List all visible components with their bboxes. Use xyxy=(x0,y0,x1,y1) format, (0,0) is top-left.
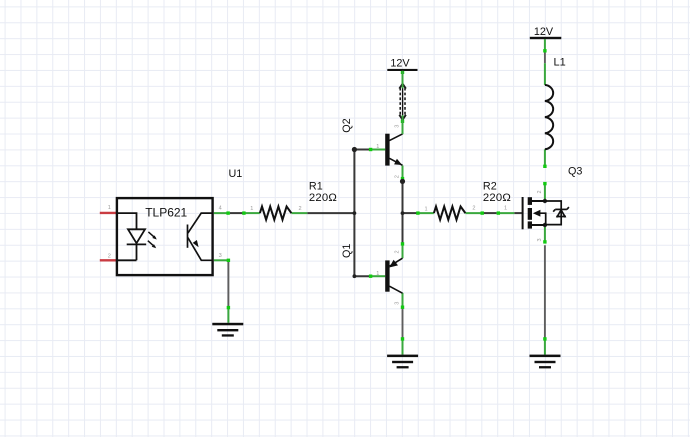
svg-text:Q3: Q3 xyxy=(568,166,582,178)
svg-text:12V: 12V xyxy=(534,26,554,38)
svg-text:2: 2 xyxy=(108,253,111,259)
svg-text:4: 4 xyxy=(219,206,222,212)
svg-text:L1: L1 xyxy=(554,57,566,69)
svg-text:220Ω: 220Ω xyxy=(309,192,337,204)
svg-text:2: 2 xyxy=(537,190,543,193)
svg-text:3: 3 xyxy=(395,302,401,305)
svg-text:1: 1 xyxy=(376,271,379,277)
svg-text:1: 1 xyxy=(425,206,428,212)
svg-text:1: 1 xyxy=(108,205,111,211)
svg-text:3: 3 xyxy=(219,253,222,259)
svg-text:Q2: Q2 xyxy=(341,118,353,132)
svg-text:2: 2 xyxy=(395,175,401,178)
svg-text:12V: 12V xyxy=(390,58,410,70)
svg-text:1: 1 xyxy=(504,206,507,212)
svg-text:3: 3 xyxy=(537,238,543,241)
svg-text:1: 1 xyxy=(250,206,253,212)
svg-text:220Ω: 220Ω xyxy=(483,192,511,204)
svg-text:TLP621: TLP621 xyxy=(145,206,187,220)
svg-text:Q1: Q1 xyxy=(341,244,353,258)
svg-text:2: 2 xyxy=(299,206,302,212)
svg-text:3: 3 xyxy=(395,125,401,128)
svg-text:R2: R2 xyxy=(483,180,497,192)
svg-text:2: 2 xyxy=(395,250,401,253)
svg-text:R1: R1 xyxy=(309,180,323,192)
svg-text:1: 1 xyxy=(376,144,379,150)
svg-text:2: 2 xyxy=(472,206,475,212)
svg-text:U1: U1 xyxy=(229,168,243,180)
